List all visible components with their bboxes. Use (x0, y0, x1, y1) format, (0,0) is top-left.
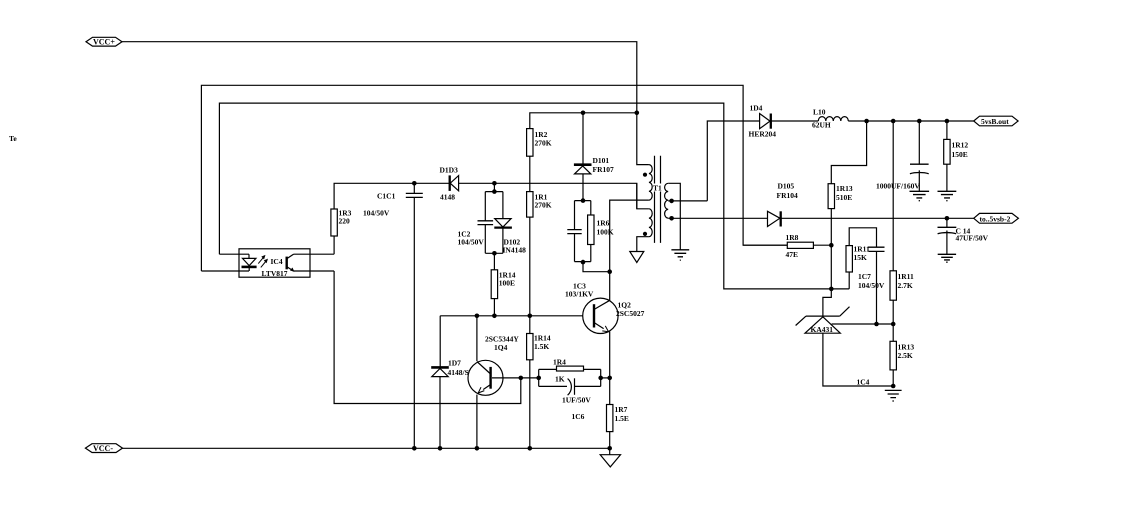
svg-text:D101: D101 (593, 156, 610, 165)
wire inner feedback loop (219, 103, 831, 289)
svg-text:1R6: 1R6 (597, 219, 610, 228)
svg-text:47E: 47E (786, 250, 799, 259)
wire secondary bottom tap (668, 217, 767, 219)
svg-text:IN4148: IN4148 (503, 246, 527, 255)
wire VCC+ rail to transformer (122, 42, 637, 113)
aux winding (649, 209, 652, 237)
wire KA431 ref (832, 323, 894, 325)
svg-text:2.5K: 2.5K (898, 351, 913, 360)
svg-text:2SC5027: 2SC5027 (616, 309, 645, 318)
svg-text:1R11: 1R11 (898, 272, 915, 281)
svg-text:1Q4: 1Q4 (494, 343, 508, 352)
svg-text:15K: 15K (854, 253, 868, 262)
wire VCC- rail (123, 447, 610, 449)
wire R14 to base rail (493, 299, 495, 316)
transformer core (655, 156, 661, 243)
svg-text:220: 220 (339, 217, 351, 226)
primary winding (649, 165, 652, 201)
svg-text:1K: 1K (555, 375, 565, 384)
capacitor C1C1 104/50V (413, 183, 415, 448)
svg-text:1.5K: 1.5K (534, 342, 549, 351)
ground C14 (hatched) (938, 254, 956, 262)
power flag VCC- (85, 444, 122, 453)
svg-text:104/50V: 104/50V (858, 281, 885, 290)
svg-text:LTV817: LTV817 (262, 269, 288, 278)
wire R1 to Q2 base rail (529, 217, 531, 316)
ground 1000UF (hatched) (910, 191, 930, 200)
capacitor C14 47UF/50V (946, 218, 948, 227)
diode D101 FR107 snubber (582, 113, 584, 164)
resistor 1R14 100E (491, 270, 497, 299)
svg-text:510E: 510E (836, 193, 852, 202)
wire startup divider top (530, 113, 637, 129)
resistor 1R14 1.5K (529, 316, 531, 334)
svg-text:100E: 100E (499, 279, 515, 288)
svg-text:VCC+: VCC+ (93, 38, 115, 47)
wire outer feedback loop (201, 85, 787, 271)
resistor 1R7 1.5E (609, 378, 611, 405)
ground Q2 emitter (open triangle) (600, 455, 620, 467)
wire D4 to L10 (771, 120, 819, 122)
wire divider from output (892, 121, 894, 271)
svg-text:1.5E: 1.5E (615, 414, 629, 423)
wire to.5vsb-2 rail (781, 217, 974, 219)
wire secondary top to ground (668, 183, 680, 250)
wire LED light arrows (258, 257, 263, 263)
svg-text:FR104: FR104 (777, 191, 798, 200)
wire aux bottom to ground (637, 237, 649, 252)
resistor 1R1 270K (527, 192, 533, 218)
resistor 1R4 1K with capacitor 1C6 parallel box (539, 369, 601, 386)
svg-text:1D4: 1D4 (750, 104, 763, 113)
svg-text:KA431: KA431 (811, 325, 834, 334)
capacitor 1C3 with resistor 1R6 snubber RC (575, 201, 591, 262)
wire Q2 base rail (440, 316, 593, 368)
wire R3 top to bias rail (334, 183, 637, 209)
svg-text:150E: 150E (952, 150, 968, 159)
transistor phototransistor of IC4 (286, 257, 288, 270)
resistor 1R12 150E (946, 121, 948, 139)
svg-text:T1: T1 (653, 184, 662, 193)
svg-text:1000UF/160V: 1000UF/160V (876, 182, 920, 191)
capacitor 1C6 1UF/50V (568, 379, 572, 396)
ground secondary (hatched) (671, 250, 689, 260)
svg-text:1D7: 1D7 (448, 359, 461, 368)
wire snubber to collector node (583, 262, 610, 272)
svg-text:100K: 100K (597, 228, 614, 237)
svg-text:104/50V: 104/50V (458, 238, 485, 247)
svg-text:5vsB.out: 5vsB.out (981, 117, 1009, 126)
svg-text:1C4: 1C4 (857, 378, 870, 387)
wire IC4 emitter run to Q4 base (334, 271, 521, 404)
wire IC4 collector to R3 (333, 236, 335, 254)
wire 510E to R8 node (830, 209, 832, 289)
resistor 1R3 (331, 209, 337, 236)
wire D102 branch to R14 (493, 253, 495, 269)
resistor 1R13 510E (828, 184, 834, 209)
wire IC4 pin leads (201, 254, 334, 271)
svg-text:1C6: 1C6 (572, 412, 585, 421)
svg-text:D105: D105 (778, 182, 795, 191)
wire primary bottom to collector (610, 200, 649, 272)
svg-text:C1C1: C1C1 (377, 192, 396, 201)
svg-text:270K: 270K (535, 139, 552, 148)
svg-text:47UF/50V: 47UF/50V (956, 234, 989, 243)
diode LED inside IC4 (243, 254, 256, 271)
diode 1D7 4148/ST (431, 366, 449, 369)
output flag to..5vsb-2 (974, 213, 1019, 223)
diode D1D3 4148 (449, 175, 451, 191)
svg-text:104/50V: 104/50V (363, 209, 390, 218)
svg-text:HER204: HER204 (749, 130, 777, 139)
ground divider (hatched) (885, 390, 902, 401)
svg-text:1R12: 1R12 (952, 141, 969, 150)
secondary winding (665, 183, 669, 218)
transistor KA431 shunt regulator (823, 289, 831, 316)
ground 1R12 (hatched) (938, 191, 957, 200)
wire 5vsb output rail (848, 120, 973, 122)
svg-text:62UH: 62UH (812, 121, 831, 130)
svg-text:1UF/50V: 1UF/50V (562, 396, 591, 405)
resistor 1R11 15K with capacitor 1C7 (849, 228, 876, 247)
capacitor 1C7 104/50V (869, 247, 885, 251)
svg-text:4148: 4148 (440, 193, 455, 202)
svg-text:FR107: FR107 (593, 165, 614, 174)
svg-text:1R7: 1R7 (615, 405, 628, 414)
wire KA431 anode (823, 333, 893, 386)
diode 1D4 HER204 (760, 114, 770, 129)
wire secondary mid tap to D4 (668, 121, 759, 201)
svg-text:L10: L10 (813, 108, 826, 117)
diode D105 FR104 (768, 211, 780, 226)
capacitor 1000UF/160V (918, 121, 920, 164)
resistor 1R6 100K (590, 201, 592, 262)
svg-text:Te: Te (9, 134, 17, 143)
svg-text:270K: 270K (535, 201, 552, 210)
svg-text:1R8: 1R8 (786, 233, 799, 242)
inductor L10 62UH (818, 117, 848, 121)
svg-text:D1D3: D1D3 (440, 166, 459, 175)
resistor 1R2 270K (527, 129, 533, 157)
wire primary feed (637, 113, 649, 165)
output flag 5vsB.out (974, 116, 1018, 126)
wire aux winding feed (637, 183, 649, 209)
svg-text:1R4: 1R4 (553, 358, 566, 367)
diode D102 IN4148 (502, 192, 504, 254)
transistor 1Q4 2SC5344Y (468, 360, 503, 395)
svg-text:103/1KV: 103/1KV (565, 290, 594, 299)
capacitor 1C2 with diode D102 parallel branch (493, 183, 495, 191)
power flag VCC+ (86, 37, 122, 46)
resistor 1R13 2.5K (890, 341, 896, 370)
transistor 1Q2 2SC5027 (583, 298, 618, 333)
ground aux (open triangle) (630, 252, 644, 263)
svg-text:IC4: IC4 (271, 257, 283, 266)
wire 510E branch from output (831, 121, 866, 184)
svg-text:VCC-: VCC- (93, 444, 113, 453)
svg-text:1C7: 1C7 (858, 272, 871, 281)
svg-text:2.7K: 2.7K (898, 281, 913, 290)
svg-text:1R13: 1R13 (836, 184, 853, 193)
wire R2 to R1 (529, 156, 531, 191)
optocoupler IC4 LTV817 box (239, 249, 310, 277)
resistor 1R8 47E (743, 244, 831, 246)
resistor 1R11 2.7K (890, 271, 896, 300)
svg-text:to..5vsb-2: to..5vsb-2 (980, 214, 1011, 223)
